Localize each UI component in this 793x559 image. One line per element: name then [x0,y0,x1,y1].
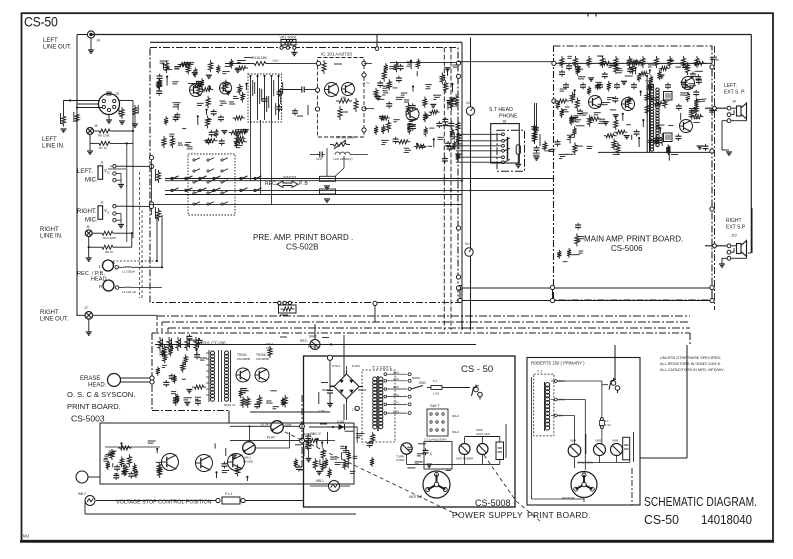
svg-text:LINE OUT.: LINE OUT. [40,317,69,323]
svg-text:RIGHT: RIGHT [40,310,59,316]
svg-text:J2: J2 [100,201,104,205]
svg-text:WB.1: WB.1 [316,479,324,483]
svg-text:R7 1K: R7 1K [99,146,107,150]
svg-text:J6: J6 [86,225,90,229]
svg-text:LEFT: LEFT [42,137,57,143]
svg-text:P. B: P. B [299,181,308,187]
svg-text:150v: 150v [393,393,400,397]
svg-text:D.501: D.501 [332,364,340,368]
svg-text:E: E [108,171,110,175]
svg-text:RIGHT.: RIGHT. [77,209,97,215]
svg-text:MAIN AMP. PRINT BOARD.: MAIN AMP. PRINT BOARD. [584,235,683,244]
svg-text:C117: C117 [316,157,323,161]
svg-text:S.T HEAD: S.T HEAD [489,107,513,113]
svg-text:60Hz: 60Hz [452,414,460,418]
svg-text:WB.2: WB.2 [78,492,86,496]
svg-text:T401: T401 [645,80,652,84]
svg-text:UNLESS OTHERWISE SPECIFIED:: UNLESS OTHERWISE SPECIFIED: [660,356,721,360]
svg-text:J7: J7 [84,306,88,310]
svg-text:HEAD.: HEAD. [91,277,109,283]
svg-text:L1 220μH: L1 220μH [122,270,135,274]
svg-text:117v: 117v [393,401,399,405]
svg-text:C.5 1μ=10μ/150WV: C.5 1μ=10μ/150WV [424,438,447,442]
svg-text:VU: VU [466,101,471,105]
svg-text:+29v: +29v [712,58,719,62]
svg-text:REC: REC [300,339,308,343]
svg-text:R118 18K: R118 18K [252,56,268,60]
svg-text:J10: J10 [731,234,737,238]
svg-text:C.501: C.501 [318,409,326,413]
svg-text:ERASE: ERASE [80,376,100,382]
svg-text:L2 220 μH: L2 220 μH [122,290,136,294]
svg-text:D.508: D.508 [337,420,345,424]
svg-text:VR1 50KA: VR1 50KA [280,35,297,39]
svg-text:200v: 200v [393,385,400,389]
svg-text:LINE OUT.: LINE OUT. [43,45,72,51]
svg-text:LINE IN.: LINE IN. [40,234,63,240]
svg-text:ROBERTS 150 ( PRIMARY ): ROBERTS 150 ( PRIMARY ) [531,361,585,366]
svg-text:IC 101 AA0720: IC 101 AA0720 [321,52,352,57]
svg-text:POWER SUPPLY: POWER SUPPLY [452,510,523,520]
svg-text:R8 1K: R8 1K [105,250,113,254]
svg-text:SW101: SW101 [283,175,297,180]
svg-text:100v: 100v [393,409,400,413]
svg-text:SCHEMATIC DIAGRAM.: SCHEMATIC DIAGRAM. [644,495,757,509]
svg-text:+22v: +22v [272,59,279,63]
svg-text:PRINT BOARD.: PRINT BOARD. [67,402,121,411]
svg-text:VR101 30KB: VR101 30KB [336,136,354,140]
svg-text:SW.T: SW.T [430,403,440,408]
svg-text:SW2: SW2 [419,381,426,385]
svg-text:L101 220MH(L): L101 220MH(L) [333,157,353,161]
svg-text:LEFT: LEFT [43,38,58,44]
svg-text:F.1: F.1 [433,379,437,383]
svg-text:MJ: MJ [23,534,29,539]
svg-text:T. 1: T. 1 [537,370,542,374]
svg-text:EXT S. P.: EXT S. P. [724,90,745,96]
svg-text:OVER: OVER [396,458,405,462]
svg-text:1.5A: 1.5A [433,392,439,396]
svg-text:14018040: 14018040 [701,512,752,527]
svg-text:E: E [108,211,110,215]
svg-text:CS-50: CS-50 [24,14,58,30]
svg-text:J3: J3 [115,92,119,96]
svg-text:EXT S.P: EXT S.P [726,225,746,231]
svg-text:O. S. C & SYSCON.: O. S. C & SYSCON. [67,390,135,399]
svg-text:PLAY: PLAY [267,435,276,439]
svg-text:D.502: D.502 [352,364,360,368]
svg-text:PAUSE.: PAUSE. [243,459,254,463]
svg-text:CS-5003: CS-5003 [71,414,105,424]
svg-text:ALL RESISTORS IN OHMS 1/4W: ALL RESISTORS IN OHMS 1/4W K. [660,362,721,366]
svg-text:RIGHT: RIGHT [40,227,59,233]
svg-text:LEFT.: LEFT. [77,169,93,175]
svg-text:MOTOR: MOTOR [562,497,575,501]
svg-text:ALL CAPACITORS IN MFD, MFD/W: ALL CAPACITORS IN MFD, MFD/WV [660,368,724,372]
svg-text:2SC968B: 2SC968B [256,357,269,361]
svg-text:240v: 240v [393,370,400,374]
svg-text:VU: VU [465,242,470,246]
svg-text:SWE: SWE [285,424,292,428]
svg-text:2SC968B: 2SC968B [237,357,250,361]
svg-text:MIC.: MIC. [85,218,98,224]
svg-text:5.5v: 5.5v [352,408,358,412]
svg-text:MIC.: MIC. [85,178,98,184]
svg-text:LINE IN.: LINE IN. [42,144,65,150]
svg-text:R10 220K: R10 220K [103,236,116,240]
svg-text:J4: J4 [96,39,100,43]
svg-text:CS-5006: CS-5006 [611,244,643,253]
svg-text:SW4: SW4 [570,439,577,443]
svg-text:P.L.1: P.L.1 [225,492,233,496]
svg-text:R212 47: R212 47 [224,403,236,407]
svg-text:1.5A: 1.5A [605,423,611,427]
svg-text:+1.7v: +1.7v [362,81,370,85]
svg-text:RIGHT: RIGHT [726,218,742,224]
svg-text:HEAD.: HEAD. [88,383,107,389]
svg-text:50Hz: 50Hz [452,430,460,434]
svg-text:CS-50: CS-50 [644,512,679,527]
svg-text:SW8: SW8 [612,439,619,443]
svg-text:+ 25v: + 25v [627,60,635,64]
svg-text:R9 220K: R9 220K [98,134,110,138]
svg-text:LEFT.: LEFT. [724,83,737,89]
svg-text:68K: 68K [341,96,348,100]
svg-text:R.501 1K: R.501 1K [304,432,315,436]
svg-text:J1: J1 [100,161,104,165]
svg-text:J5: J5 [94,124,98,128]
svg-text:PRE. AMP. PRINT BOARD .: PRE. AMP. PRINT BOARD . [253,233,353,242]
svg-text:T. 1 CST-1: T. 1 CST-1 [372,365,392,370]
svg-text:CS - 50: CS - 50 [461,364,493,375]
svg-text:SW5: SW5 [595,439,602,443]
svg-text:PRINT BOARD.: PRINT BOARD. [527,510,591,520]
svg-text:REC.: REC. [265,181,277,187]
svg-text:SHUT OFF: SHUT OFF [476,432,490,436]
svg-text:CS-502B: CS-502B [286,243,318,252]
svg-text:J9: J9 [732,99,736,103]
svg-text:220v: 220v [393,377,400,381]
